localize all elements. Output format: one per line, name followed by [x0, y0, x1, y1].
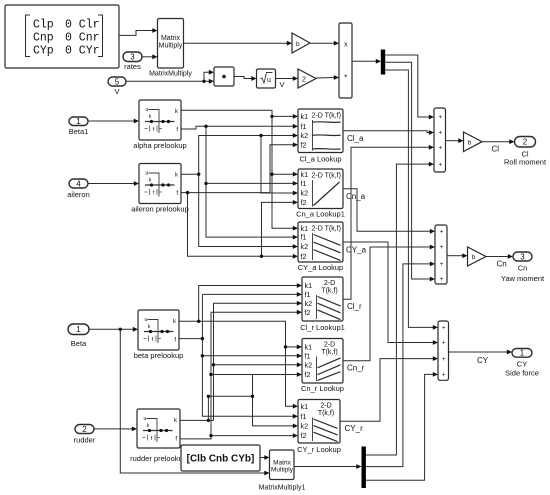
demux (bottom): [362, 447, 366, 489]
svg-text:+: +: [438, 130, 442, 137]
wire aileron to aileron prelookup: [88, 183, 134, 185]
svg-text:f1: f1: [301, 122, 307, 131]
input port 1 Beta1: [69, 117, 89, 136]
wire Beta1 to alpha prelookup: [88, 120, 134, 122]
svg-text:2: 2: [523, 138, 528, 147]
wire aileron.f to f2 inputs of Cl_a, Cn_a, CY_a: [181, 145, 293, 193]
sum block CY: [438, 321, 449, 380]
wire demux out1 to Cl sum in1: [385, 55, 429, 117]
svg-text:2-D: 2-D: [324, 280, 335, 287]
wire product to demux: [352, 60, 376, 62]
wire V to dot product (both inputs): [126, 80, 209, 82]
wire constant to MatrixMultiply in1: [119, 31, 153, 36]
svg-text:MatrixMultiply: MatrixMultiply: [149, 71, 192, 78]
svg-text:k1: k1: [305, 281, 313, 290]
svg-text:k1: k1: [301, 170, 309, 179]
wire MatrixMultiply to gain b: [184, 42, 288, 44]
product block: [339, 23, 352, 98]
block Cn_r Lookup: [301, 339, 344, 394]
gain b (top): [292, 33, 310, 53]
svg-text:5: 5: [115, 77, 120, 86]
svg-text:rudder prelookup: rudder prelookup: [130, 454, 187, 463]
wire alpha.f to f1 inputs of Cl_a, Cn_a, CY_a: [181, 126, 293, 129]
svg-text:f2: f2: [301, 140, 307, 149]
svg-text:aileron: aileron: [67, 190, 90, 199]
svg-text:V: V: [114, 87, 119, 96]
svg-text:V: V: [279, 80, 284, 89]
svg-text:Cn_a: Cn_a: [346, 192, 366, 201]
wire Cn_r output to Cn sum in2: [343, 247, 430, 361]
svg-text:+: +: [440, 276, 444, 283]
block MatrixMultiply: [149, 19, 192, 78]
svg-text:f2: f2: [301, 431, 307, 440]
svg-text:Cnp: Cnp: [33, 32, 54, 45]
svg-text:CY_r: CY_r: [345, 424, 364, 433]
svg-text:Matrix: Matrix: [273, 460, 291, 467]
svg-text:Cl: Cl: [492, 145, 500, 154]
svg-text:u: u: [267, 77, 271, 84]
svg-text:+: +: [438, 114, 442, 121]
svg-text:alpha prelookup: alpha prelookup: [133, 141, 186, 150]
input port 3 rates: [123, 52, 142, 71]
svg-text:Cn: Cn: [518, 263, 528, 272]
svg-text:CY_a: CY_a: [346, 246, 367, 255]
svg-text:f1: f1: [305, 290, 311, 299]
svg-text:*: *: [344, 73, 347, 82]
input port 1 Beta: [68, 324, 89, 348]
svg-text:T(k,f): T(k,f): [321, 349, 337, 356]
svg-text:1: 1: [520, 349, 525, 358]
svg-text:Beta1: Beta1: [69, 127, 89, 136]
svg-text:Cn_r Lookup: Cn_r Lookup: [301, 384, 344, 393]
wire constant to MatrixMultiply1 in1: [260, 457, 265, 459]
svg-text:k2: k2: [305, 360, 313, 369]
wire gain b to product: [310, 42, 334, 44]
wire alpha.k to k1 inputs of Cl_a, Cn_a, CY_a: [181, 110, 293, 228]
block Cn_a Lookup1: [296, 169, 345, 219]
svg-text:f1: f1: [301, 412, 307, 421]
svg-text:f2: f2: [301, 198, 307, 207]
block beta prelookup: [134, 310, 184, 360]
svg-text:u: u: [144, 416, 147, 422]
sum block Cn: [435, 225, 447, 284]
svg-text:CY_a Lookup: CY_a Lookup: [298, 263, 343, 272]
svg-text:Cl_a Lookup: Cl_a Lookup: [299, 154, 341, 163]
svg-text:b: b: [296, 41, 300, 48]
svg-text:Cl_a: Cl_a: [347, 134, 364, 143]
svg-text:Roll moment: Roll moment: [504, 157, 547, 166]
svg-text:Matrix: Matrix: [161, 35, 181, 42]
svg-text:rudder: rudder: [74, 435, 96, 444]
svg-text:1: 1: [76, 325, 81, 334]
wire Cl sum to gain b: [446, 140, 459, 142]
svg-text:u: u: [146, 171, 149, 177]
wire Cl_a output to Cl sum in2: [343, 131, 429, 133]
wire bottom demux out1 to Cl sum in4: [366, 164, 429, 455]
block aileron prelookup: [131, 164, 189, 214]
svg-text:Clp: Clp: [33, 19, 54, 32]
svg-text:k1: k1: [301, 224, 309, 233]
svg-text:u: u: [145, 317, 148, 323]
output port 2 Roll moment: [504, 137, 547, 167]
svg-text:+: +: [442, 356, 446, 363]
block alpha prelookup: [133, 100, 186, 150]
svg-text:rates: rates: [124, 62, 141, 71]
svg-text:0 Cnr: 0 Cnr: [65, 32, 100, 45]
block rudder prelookup: [130, 409, 187, 463]
svg-text:k1: k1: [305, 343, 313, 352]
svg-text:3: 3: [520, 252, 525, 261]
svg-text:Cn_r: Cn_r: [347, 363, 365, 372]
constant block [Clb Cnb CYb]: [181, 445, 260, 471]
input port 4 aileron: [67, 179, 90, 199]
wire gain 2 to product: [316, 77, 334, 80]
svg-text:CY: CY: [477, 356, 489, 365]
wire demux out2 to Cn sum in4: [385, 62, 430, 279]
gain b (Cn): [468, 247, 487, 266]
svg-text:0 Clr: 0 Clr: [65, 19, 100, 32]
svg-text:f1: f1: [305, 351, 311, 360]
svg-text:0 CYr: 0 CYr: [65, 45, 100, 58]
svg-text:3: 3: [130, 53, 135, 62]
wire bottom demux out2 to Cn sum in3: [366, 264, 430, 467]
svg-text:Yaw moment: Yaw moment: [501, 274, 545, 283]
svg-text:k2: k2: [301, 189, 309, 198]
svg-text:k2: k2: [305, 299, 313, 308]
wire Beta to beta prelookup and down to MatrixMultiply1: [89, 328, 133, 330]
svg-text:+: +: [440, 261, 444, 268]
wire rudder.k to k2 inputs of Cl_r, Cn_r, CY_r: [180, 303, 297, 420]
svg-text:Cn: Cn: [497, 260, 507, 269]
output port 1 Side force: [505, 349, 539, 378]
wire beta.f to f1 inputs of Cl_r, Cn_r, CY_r: [179, 338, 202, 340]
block Cl_a Lookup: [298, 109, 343, 163]
svg-text:2-D T(k,f): 2-D T(k,f): [312, 113, 341, 120]
wire rudder to rudder prelookup: [94, 428, 132, 430]
svg-text:x: x: [344, 41, 348, 48]
svg-text:Cl_r: Cl_r: [347, 302, 362, 311]
wire demux out3 to CY sum in1: [385, 70, 433, 327]
svg-text:+: +: [440, 229, 444, 236]
svg-text:f2: f2: [305, 308, 311, 317]
svg-text:k1: k1: [301, 402, 309, 411]
wire aileron.k to k2 inputs of Cl_a, Cn_a, CY_a: [181, 136, 293, 175]
svg-text:k2: k2: [301, 242, 309, 251]
block CY_r Lookup: [297, 400, 341, 455]
svg-text:+: +: [438, 145, 442, 152]
svg-text:Multiply: Multiply: [271, 467, 294, 474]
svg-text:T(k,f): T(k,f): [318, 410, 334, 417]
constant block [Clp 0 Clr; Cnp 0 Cnr; CYp 0 CYr]: [5, 5, 119, 68]
svg-text:2-D T(k,f): 2-D T(k,f): [312, 173, 341, 180]
svg-text:b: b: [468, 139, 472, 146]
input port 2 rudder: [74, 425, 96, 445]
svg-text:[Clb Cnb CYb]: [Clb Cnb CYb]: [187, 454, 255, 465]
demux (top): [381, 50, 385, 75]
wire rates to MatrixMultiply in2: [142, 56, 153, 58]
sum block Cl: [434, 108, 446, 172]
wire dot product to sqrt: [234, 77, 252, 79]
svg-text:1: 1: [76, 117, 81, 126]
wire Cn_a output to Cn sum in1: [343, 189, 430, 232]
svg-text:k2: k2: [301, 131, 309, 140]
gain b (Cl): [464, 132, 483, 152]
wire Cl_r output to Cl sum in3: [343, 147, 429, 299]
svg-text:Cn_a Lookup1: Cn_a Lookup1: [296, 210, 345, 219]
svg-text:4: 4: [76, 179, 81, 188]
svg-text:2: 2: [82, 425, 87, 434]
svg-text:+: +: [438, 161, 442, 168]
wire CY_r output to CY sum in3: [340, 359, 433, 422]
svg-text:2-D T(k,f): 2-D T(k,f): [312, 226, 341, 233]
output port 3 Yaw moment: [501, 252, 545, 283]
svg-text:k1: k1: [301, 112, 309, 121]
svg-text:+: +: [442, 372, 446, 379]
svg-text:2: 2: [302, 76, 306, 83]
svg-text:CYp: CYp: [33, 45, 54, 58]
svg-text:CY_r Lookup: CY_r Lookup: [297, 445, 341, 454]
block MatrixMultiply1: [259, 450, 306, 492]
wire rudder.f to f2 inputs of Cl_r, Cn_r, CY_r: [180, 312, 297, 439]
svg-text:f1: f1: [301, 179, 307, 188]
svg-text:2-D: 2-D: [324, 342, 335, 349]
svg-text:k2: k2: [301, 422, 309, 431]
wire sqrt to gain 2, label V: [276, 78, 294, 80]
wire Cn sum to gain b: [447, 255, 463, 257]
svg-text:b: b: [472, 254, 476, 261]
wire gain to out port 2, label Cl: [482, 141, 510, 143]
wire bottom demux out3 to CY sum in4: [366, 374, 433, 480]
svg-text:Beta: Beta: [71, 339, 87, 348]
dot product block: [214, 67, 234, 86]
svg-text:+: +: [440, 244, 444, 251]
wire CY_a output to CY sum in2: [343, 242, 433, 343]
wire CY sum to out port 1, label CY: [449, 351, 508, 353]
svg-text:Side force: Side force: [505, 368, 539, 377]
svg-text:CY: CY: [517, 359, 527, 368]
svg-text:2-D: 2-D: [320, 403, 331, 410]
svg-text:u: u: [146, 107, 149, 113]
wire beta.k to k1 inputs of Cl_r, Cn_r, CY_r: [179, 321, 293, 406]
input port 5 V: [108, 77, 126, 96]
svg-text:f2: f2: [305, 370, 311, 379]
svg-text:aileron prelookup: aileron prelookup: [131, 205, 189, 214]
svg-text:T(k,f): T(k,f): [321, 288, 337, 295]
svg-text:beta prelookup: beta prelookup: [134, 351, 184, 360]
block CY_a Lookup: [298, 222, 343, 272]
sqrt block: [257, 69, 276, 88]
svg-text:Cl_r Lookup1: Cl_r Lookup1: [300, 323, 345, 332]
wire gain to out port 3, label Cn: [486, 256, 508, 258]
svg-text:MatrixMultiply1: MatrixMultiply1: [259, 485, 306, 492]
gain 2: [298, 69, 316, 88]
block Cl_r Lookup1: [300, 277, 345, 332]
svg-text:Multiply: Multiply: [159, 43, 183, 50]
svg-text:f2: f2: [301, 252, 307, 261]
svg-text:+: +: [442, 325, 446, 332]
svg-text:+: +: [442, 340, 446, 347]
svg-text:f1: f1: [301, 233, 307, 242]
wire MatrixMultiply1 to demux (bottom): [294, 466, 357, 468]
